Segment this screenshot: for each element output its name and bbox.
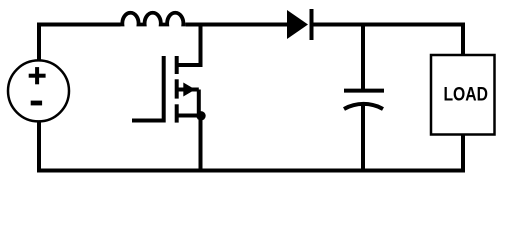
svg-text:LOAD: LOAD <box>443 84 488 105</box>
